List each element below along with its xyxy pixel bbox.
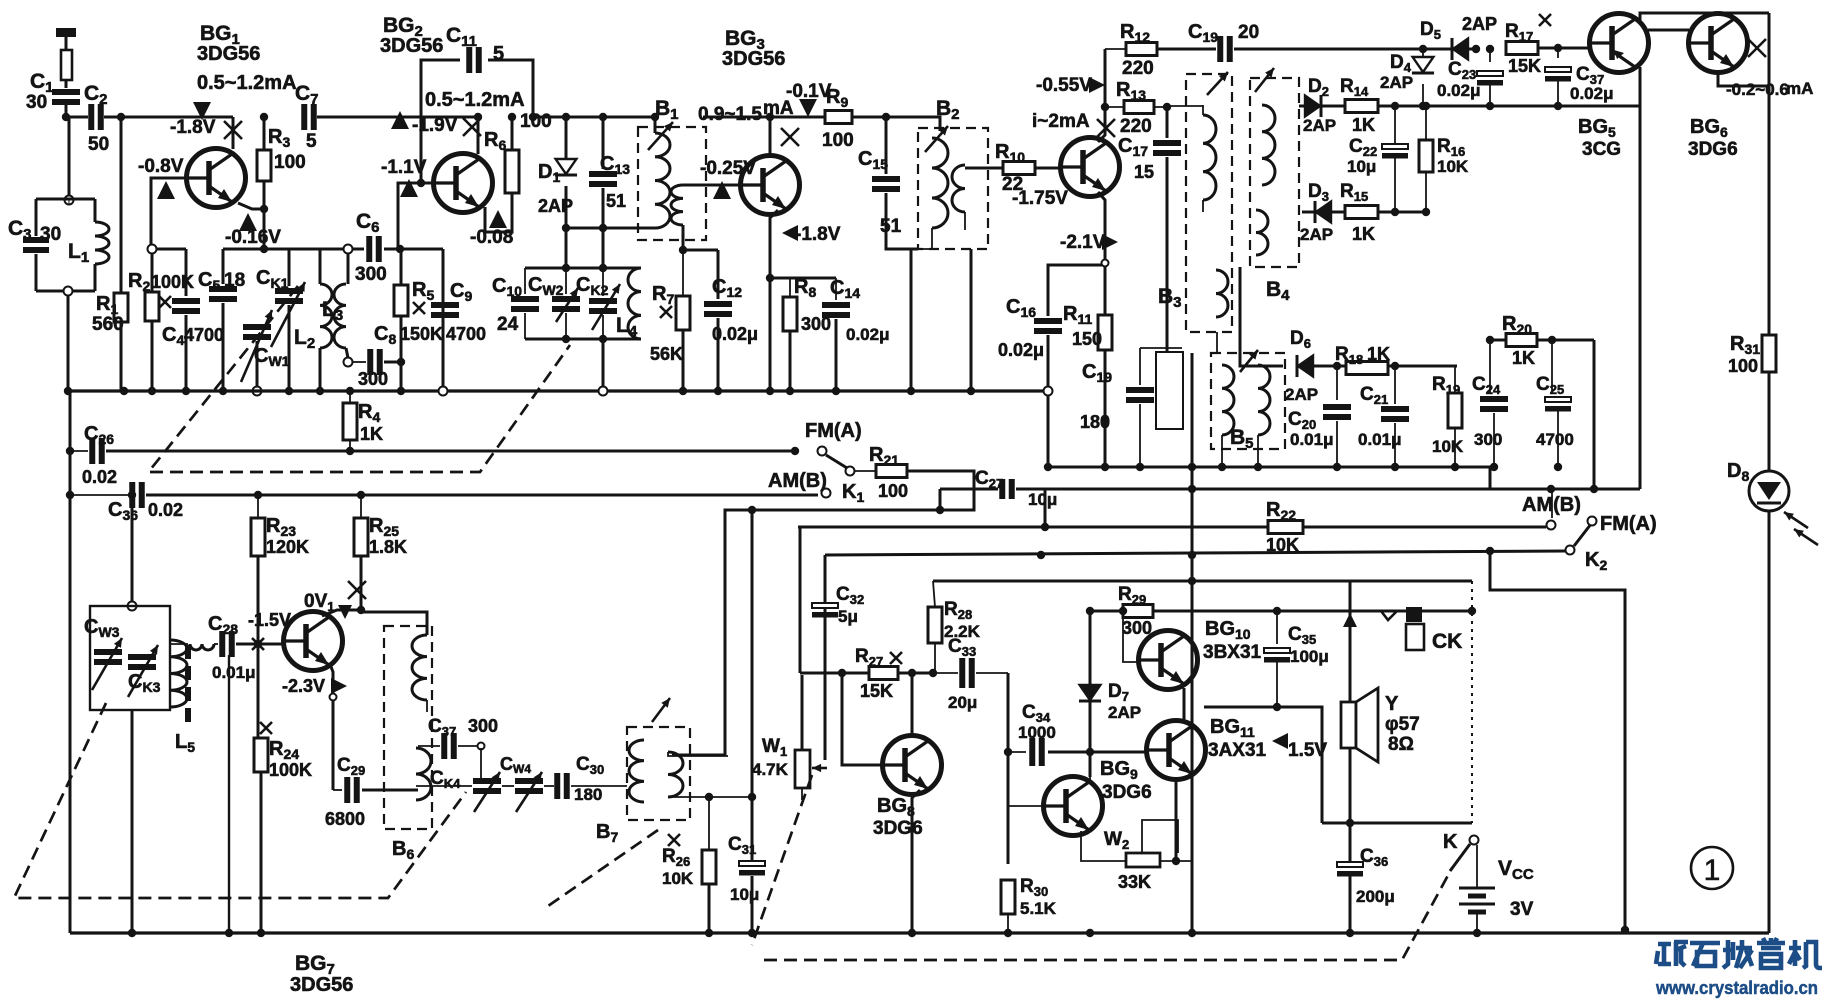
star R24 — [260, 722, 272, 734]
capacitor C26 — [92, 438, 102, 464]
node C37b — [478, 743, 485, 750]
wire BG2 base bias — [398, 183, 434, 249]
diode D4 — [1412, 57, 1434, 73]
junction — [1086, 607, 1094, 615]
diode D6 — [1297, 355, 1313, 377]
junction — [679, 246, 687, 254]
junction — [599, 264, 607, 272]
wire C3 top lead — [35, 199, 38, 236]
wire CK4 left — [416, 785, 472, 787]
junction — [1419, 45, 1427, 53]
wire — [854, 470, 876, 472]
wire C21 top — [1394, 366, 1396, 404]
svg-text:10μ: 10μ — [1028, 490, 1057, 509]
junction — [260, 113, 268, 121]
svg-text:150: 150 — [1072, 329, 1102, 349]
junction — [1254, 463, 1262, 471]
arrow CK3 — [128, 645, 158, 697]
wire bus 489 — [1016, 488, 1640, 491]
contact AM(B) K1 — [822, 489, 831, 498]
wire BG1 emitter — [238, 203, 264, 209]
junction — [562, 113, 570, 121]
svg-text:300: 300 — [355, 264, 387, 285]
wire C18 link — [1140, 347, 1182, 349]
junction — [651, 113, 659, 121]
svg-text:0.01μ: 0.01μ — [212, 663, 256, 682]
junction — [1188, 463, 1196, 471]
wire AM(B) up — [1551, 489, 1553, 518]
svg-text:3DG56: 3DG56 — [380, 35, 443, 57]
capacitor C36 — [132, 482, 142, 508]
junction — [397, 387, 405, 395]
wire BG7 collector — [322, 610, 361, 616]
probe base BG2 — [400, 179, 418, 197]
svg-text:CK: CK — [1432, 630, 1462, 653]
node emitter corner — [1102, 260, 1109, 267]
probe emitter BG2 — [489, 210, 507, 228]
svg-text:5.1K: 5.1K — [1020, 899, 1057, 918]
wire — [565, 313, 567, 339]
wire C37b left — [418, 745, 440, 747]
junction — [120, 387, 128, 395]
junction — [66, 447, 74, 455]
wire BG9 emitter — [1081, 831, 1126, 861]
resistor R26 — [702, 850, 716, 884]
junction — [1486, 102, 1494, 110]
wire R10 to BG4 — [1035, 167, 1061, 170]
svg-text:FM(A): FM(A) — [1600, 513, 1657, 535]
node CW1 bus — [253, 387, 262, 396]
wire CK1 bottom — [288, 305, 291, 391]
coil B1 primary — [655, 133, 670, 228]
wire R22 line — [798, 526, 1546, 529]
wire R20 line — [1490, 339, 1594, 342]
wire C15 bottom — [886, 193, 918, 249]
transformer B2 — [918, 128, 988, 249]
svg-text:10K: 10K — [1432, 437, 1464, 456]
gang link W1 — [752, 775, 812, 945]
junction — [1101, 103, 1109, 111]
electrolytic C33 — [962, 658, 972, 688]
svg-text:51: 51 — [880, 216, 902, 237]
meter mark BG2 — [463, 118, 481, 136]
transformer B6 — [384, 626, 432, 829]
wire — [70, 494, 128, 496]
junction — [1486, 45, 1494, 53]
core L5 — [185, 645, 191, 725]
wire B1 to C12 — [683, 249, 718, 252]
capacitor C3 — [23, 240, 49, 250]
svg-text:-0.55V: -0.55V — [1036, 75, 1092, 96]
wire W1 bottom — [801, 788, 803, 800]
wire R5 top — [400, 249, 403, 285]
junction — [1472, 45, 1480, 53]
wire AM line K1 — [146, 494, 818, 497]
svg-text:30: 30 — [40, 224, 61, 245]
junction — [1037, 551, 1045, 559]
wire lower bus — [68, 389, 1048, 392]
wire — [544, 785, 554, 787]
wire R20 down — [1593, 340, 1596, 489]
wire — [70, 450, 88, 452]
trimmer capacitor CW1 — [243, 327, 271, 337]
junction — [766, 113, 774, 121]
svg-text:-2.3V: -2.3V — [282, 676, 325, 696]
wire — [1221, 435, 1223, 467]
svg-text:5: 5 — [493, 43, 504, 65]
wire B2 to bus — [910, 249, 913, 391]
wire rail A — [152, 248, 186, 251]
probe BG2 — [391, 111, 409, 129]
resistor R27 — [869, 667, 898, 680]
wire R4 top — [349, 391, 351, 403]
wire jack dotted — [1471, 581, 1473, 823]
coil B7 primary — [629, 740, 644, 802]
wire detector line FM — [1299, 105, 1640, 108]
capacitor C5 — [209, 289, 237, 299]
transistor BG5 — [1590, 14, 1649, 73]
wire C31 bottom — [751, 876, 754, 933]
resistor R3 — [257, 150, 271, 181]
wire C12 bottom — [717, 318, 720, 391]
meter mark — [252, 638, 264, 650]
resistor R1 — [114, 293, 128, 322]
wire R27 line — [800, 672, 933, 675]
capacitor C14 — [822, 305, 850, 315]
svg-text:220: 220 — [1122, 58, 1154, 79]
wire — [426, 700, 428, 712]
junction — [62, 113, 70, 121]
junction — [599, 335, 607, 343]
arrow D8 a — [1784, 512, 1808, 528]
junction — [1486, 547, 1494, 555]
trimmer capacitor CW4 — [515, 781, 543, 791]
capacitor C2 — [91, 104, 101, 130]
wire D6 out — [1313, 365, 1457, 368]
wire C11 left — [421, 60, 460, 183]
svg-text:3DG56: 3DG56 — [197, 43, 260, 65]
coil B4 secondary — [1256, 210, 1268, 255]
wire — [1105, 48, 1126, 50]
junction — [1391, 463, 1399, 471]
junction — [748, 506, 756, 514]
resistor R21 — [876, 465, 907, 478]
svg-text:220: 220 — [1120, 116, 1152, 137]
transistor BG1 — [187, 149, 246, 208]
wire C22 bottom — [1394, 158, 1396, 212]
wire — [1425, 106, 1427, 140]
capacitor C9 — [431, 305, 459, 315]
svg-text:4.7K: 4.7K — [752, 760, 789, 779]
contact FM(A) K2 — [1588, 517, 1597, 526]
wire CW1 bottom — [256, 341, 259, 388]
transistor BG7 — [284, 612, 343, 671]
capacitor C17 — [1153, 143, 1181, 153]
wire L1 to bus — [67, 295, 70, 391]
resistor R31 — [1762, 335, 1776, 372]
resistor R30 — [1001, 880, 1015, 914]
wire R12 to C19 — [1157, 48, 1216, 51]
wire — [1008, 751, 1026, 753]
junction — [562, 264, 570, 272]
capacitor C25 — [1545, 397, 1571, 412]
inductor L4 — [628, 268, 641, 339]
wire C13 bottom — [602, 188, 605, 268]
svg-text:180: 180 — [574, 785, 602, 804]
wire C25 bottom — [1557, 411, 1559, 467]
svg-text:50: 50 — [88, 134, 109, 155]
wire C15 top — [885, 117, 888, 174]
resistor R4 — [343, 403, 357, 440]
wire R25 bottom — [360, 556, 363, 612]
junction — [679, 387, 687, 395]
junction — [599, 224, 607, 232]
junction — [1041, 523, 1049, 531]
resistor R6 — [505, 150, 519, 193]
junction — [1468, 607, 1476, 615]
junction — [766, 387, 774, 395]
svg-text:-1.9V: -1.9V — [412, 115, 458, 136]
svg-text:300: 300 — [1122, 618, 1152, 638]
arrow CW2 — [556, 288, 578, 322]
wire K2 to bus — [1490, 551, 1625, 930]
svg-text:6800: 6800 — [325, 809, 365, 829]
node C9 bus — [439, 387, 448, 396]
wire — [65, 36, 68, 88]
probe emitter BG7 — [331, 678, 347, 694]
diode D5 — [1452, 38, 1468, 60]
junction — [791, 447, 799, 455]
junction — [838, 669, 846, 677]
capacitor C21 — [1381, 409, 1409, 419]
inductor L1 — [95, 222, 109, 264]
wire — [458, 745, 477, 747]
junction — [748, 929, 756, 937]
wire BG11 collector — [1175, 780, 1178, 861]
junction — [967, 387, 975, 395]
svg-text:15K: 15K — [1508, 56, 1541, 76]
capacitor C19 — [1220, 36, 1230, 62]
capacitor C4 — [172, 301, 200, 311]
svg-text:0.02μ: 0.02μ — [712, 324, 758, 344]
wire C32 branch — [824, 555, 827, 760]
junction — [1391, 208, 1399, 216]
svg-text:120K: 120K — [266, 537, 309, 557]
wire — [911, 248, 932, 250]
svg-text:20μ: 20μ — [948, 693, 977, 712]
wire C4 bottom — [185, 315, 188, 391]
junction — [1346, 929, 1354, 937]
meter mark BG3 — [781, 128, 799, 146]
transistor BG8 — [883, 736, 942, 795]
wire to CW3 box — [131, 495, 134, 602]
wire R4 bottom — [349, 440, 351, 451]
svg-text:150K: 150K — [400, 324, 443, 344]
wire R8 bottom — [789, 331, 792, 391]
wire — [976, 672, 1008, 674]
junction — [1422, 208, 1430, 216]
transistor BG6 — [1689, 14, 1748, 73]
junction — [1473, 929, 1481, 937]
wire L1 top — [94, 199, 97, 222]
junction — [1163, 103, 1171, 111]
electrolytic C27 — [1002, 479, 1012, 499]
wire — [964, 212, 966, 230]
arrow B5 — [1240, 350, 1258, 372]
wire CW3 box to bus — [131, 710, 134, 933]
wire BG5 to BG6 — [1648, 29, 1689, 32]
svg-text:1K: 1K — [1352, 224, 1375, 244]
wire C9 branch — [442, 249, 445, 391]
trimmer capacitor CW2 — [552, 299, 580, 309]
svg-text:Y: Y — [1385, 693, 1399, 715]
wire C11 right — [488, 60, 533, 117]
wire C14 top — [835, 278, 837, 300]
wire B7 top out — [668, 752, 728, 756]
wire to C16 — [1048, 265, 1105, 316]
wire C23 bottom — [1489, 85, 1491, 106]
electrolytic C22 — [1382, 144, 1408, 159]
diode D3 — [1315, 201, 1331, 223]
probe collector BG1 — [193, 102, 211, 120]
coil B2 primary — [932, 138, 948, 228]
svg-text:0.02μ: 0.02μ — [1570, 84, 1614, 103]
wire FM line K1 — [106, 450, 795, 453]
wire — [933, 581, 935, 607]
junction — [64, 387, 72, 395]
wire C30 out — [571, 785, 627, 787]
variable capacitor CK2 — [589, 301, 617, 311]
star R17 — [1539, 14, 1551, 26]
wire C29 out — [362, 789, 418, 792]
wiper W2 — [1142, 820, 1178, 853]
wire W2 right — [1160, 860, 1192, 862]
junction — [260, 205, 268, 213]
junction — [1486, 336, 1494, 344]
wire C20 top — [1336, 366, 1338, 400]
capacitor C28 — [222, 631, 232, 657]
LED D8 — [1749, 471, 1789, 511]
junction — [182, 387, 190, 395]
node C6 left — [344, 245, 353, 254]
variable capacitor CK3 — [128, 657, 156, 667]
wire C24 bottom — [1493, 413, 1495, 467]
svg-text:300: 300 — [358, 369, 388, 389]
wire K2 line — [825, 551, 1566, 555]
coil B3 primary — [1203, 115, 1216, 200]
wire 489 to R22 — [1044, 489, 1047, 527]
junction — [832, 387, 840, 395]
arrow B7 — [652, 698, 670, 722]
inductor L5 — [170, 640, 187, 707]
junction — [1086, 748, 1094, 756]
wire R23-R24 — [257, 556, 260, 738]
wire R21 route — [672, 471, 974, 755]
wire L2 bottom — [319, 348, 322, 391]
wire BG10 base — [1123, 611, 1141, 662]
svg-text:3DG6: 3DG6 — [1688, 139, 1738, 160]
resistor R23 — [251, 518, 265, 556]
wire B1 sec bottom — [682, 225, 685, 250]
wire R2 top — [151, 253, 154, 292]
wire C37 top — [1557, 48, 1559, 58]
svg-text:0.02μ: 0.02μ — [998, 340, 1044, 360]
wire C13 top — [602, 117, 605, 169]
junction — [254, 491, 262, 499]
junction — [529, 113, 537, 121]
wire BG3 base — [683, 184, 741, 187]
junction — [1590, 485, 1598, 493]
diode D2 — [1305, 95, 1321, 117]
junction — [1451, 463, 1459, 471]
wire B4 to D6 — [1240, 267, 1283, 366]
svg-text:30: 30 — [26, 92, 47, 113]
wire C23 top — [1489, 49, 1491, 62]
svg-text:-0.1V: -0.1V — [786, 81, 832, 102]
wire bottom bus mid — [765, 931, 830, 934]
junction — [1391, 362, 1399, 370]
svg-text:10μ: 10μ — [730, 885, 759, 904]
svg-text:i~2mA: i~2mA — [1032, 111, 1090, 132]
resistor R14 — [1345, 100, 1378, 113]
page number 1 — [1691, 847, 1733, 889]
wire BG5 emitter — [1639, 67, 1642, 103]
svg-text:300: 300 — [1474, 430, 1502, 449]
wire top bus seg3 — [533, 116, 655, 119]
junction — [1188, 929, 1196, 937]
wire antenna to bus — [65, 104, 68, 117]
svg-text:3DG56: 3DG56 — [722, 48, 785, 70]
wire AGC vertical — [1191, 353, 1194, 933]
arrow speaker wire — [1343, 613, 1357, 627]
gang link mid — [150, 345, 570, 472]
svg-text:0.02μ: 0.02μ — [1437, 81, 1481, 100]
svg-text:20: 20 — [1238, 22, 1259, 43]
svg-text:K: K — [1443, 831, 1458, 853]
arrow B1 — [648, 122, 673, 150]
junction — [705, 793, 713, 801]
capacitor C24 — [1480, 399, 1508, 409]
junction — [1188, 485, 1196, 493]
node L1 bottom — [64, 287, 73, 296]
wire — [1425, 172, 1427, 212]
junction — [1391, 102, 1399, 110]
jack CK — [1381, 611, 1397, 620]
capacitor C30 — [557, 773, 567, 799]
junction — [225, 929, 233, 937]
variable capacitor CK4 — [473, 781, 501, 791]
wire to L1 — [68, 117, 71, 196]
svg-text:0.9~1.5: 0.9~1.5 — [698, 104, 762, 125]
junction — [714, 387, 722, 395]
transistor BG11 — [1147, 721, 1206, 780]
wire C18 top — [1139, 348, 1141, 385]
arrow CW4 — [516, 772, 542, 812]
probe BG3 — [799, 99, 817, 117]
resistor R18 — [1346, 362, 1388, 375]
wire — [602, 268, 604, 296]
svg-text:3CG: 3CG — [1582, 139, 1621, 160]
junction — [908, 669, 916, 677]
svg-text:-0.08: -0.08 — [470, 227, 513, 248]
wire — [68, 199, 70, 204]
wire C8 right — [384, 361, 401, 364]
resistor R5 — [394, 285, 408, 316]
wire tank2 top rail — [525, 267, 641, 270]
inductor L2 — [320, 284, 332, 348]
resistor R11 — [1098, 315, 1112, 350]
wire C16 bottom — [1047, 335, 1050, 467]
